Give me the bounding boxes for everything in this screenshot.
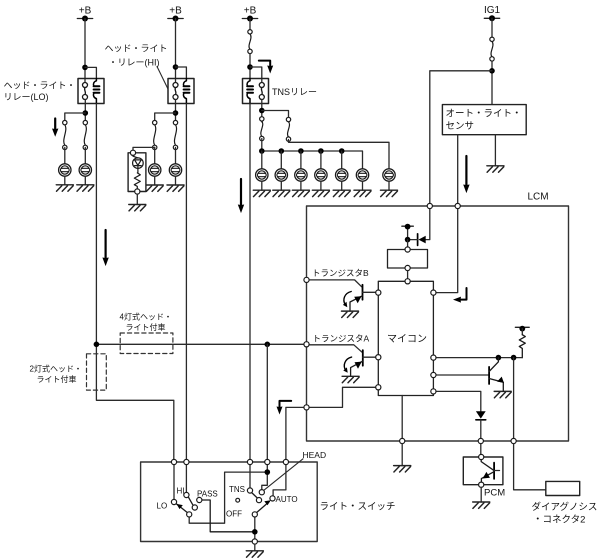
ground NPN emitter bbox=[494, 391, 511, 397]
main lever common-AUTO (with arrow) bbox=[256, 500, 270, 513]
ground HI indicator bbox=[129, 205, 146, 211]
node junction NPN collector bbox=[496, 355, 502, 361]
dimmer lever LO-common (with arrow) bbox=[176, 504, 187, 513]
node junction LO lamps bbox=[83, 110, 89, 116]
fuse LO left bbox=[63, 120, 67, 149]
wire LO terminal to LO contact bbox=[173, 462, 175, 499]
svg-text:4灯式ヘッド・: 4灯式ヘッド・ bbox=[120, 312, 172, 322]
svg-text:オート・ライト・: オート・ライト・ bbox=[446, 109, 522, 120]
node junction IG1 branch bbox=[489, 68, 495, 74]
svg-text:マイコン: マイコン bbox=[387, 334, 427, 345]
wire AUTO terminal to AUTO contact bbox=[273, 462, 286, 496]
svg-text:・コネクタ2: ・コネクタ2 bbox=[533, 515, 585, 526]
fuse TNS 2 bbox=[286, 117, 290, 141]
arrow current direction into TNS relay bbox=[259, 61, 273, 74]
wire branch to HI indicator bbox=[133, 147, 155, 153]
wire IG1 line inside LCM to diode bbox=[426, 206, 430, 240]
dimmer lever HI-aux bbox=[188, 497, 193, 506]
wire switch to ground bbox=[254, 544, 256, 551]
wires TNS lamps to grounds bbox=[262, 181, 389, 190]
svg-text:ライト付車: ライト付車 bbox=[126, 322, 166, 332]
wire HI relay contact output bbox=[175, 100, 177, 123]
wire fuse to right LO lamp bbox=[84, 147, 86, 170]
HI indicator unit (box with LED and resistor) bbox=[128, 153, 146, 192]
svg-text:ヘッド・ライト・: ヘッド・ライト・ bbox=[4, 81, 76, 91]
terminal LO on switch box bbox=[171, 459, 176, 464]
wire HEAD node to HEAD contact bbox=[262, 472, 268, 490]
terminal regulator bottom bbox=[405, 265, 410, 270]
transistor PCM input bbox=[481, 460, 499, 483]
node +B (battery feed 1) bbox=[77, 6, 92, 22]
svg-text:HI: HI bbox=[177, 487, 185, 496]
wire micom to pull-up node bbox=[433, 357, 522, 359]
wire LCM to PCM bbox=[480, 444, 482, 457]
ground LO left lamp bbox=[56, 185, 73, 191]
contact HEAD bbox=[259, 490, 264, 495]
svg-text:ダイアグノシス: ダイアグノシス bbox=[532, 501, 598, 513]
svg-text:+B: +B bbox=[244, 6, 257, 17]
wire lamp to ground bbox=[175, 176, 177, 185]
wire branch to left HI fuse bbox=[155, 113, 176, 123]
svg-text:IG1: IG1 bbox=[484, 5, 501, 16]
relay LO contact bbox=[83, 83, 88, 100]
wire LCM to chassis ground bbox=[401, 444, 403, 466]
arrow current direction TNS coil line bbox=[238, 179, 244, 213]
wire bus drops to lamps bbox=[262, 151, 342, 175]
contact LO bbox=[171, 499, 176, 504]
wire fuse to left HI lamp bbox=[154, 147, 156, 170]
wire LO relay coil line down bbox=[96, 104, 173, 463]
wire lamp to ground bbox=[64, 176, 66, 185]
transistor B (PNP output) bbox=[307, 280, 379, 311]
node junction diode/supply bbox=[405, 237, 411, 243]
svg-text:PASS: PASS bbox=[197, 490, 218, 499]
internal regulator (unlabeled box) bbox=[388, 250, 428, 269]
ground transistor A emitter bbox=[342, 376, 359, 382]
pull-up resistor tap bbox=[515, 326, 529, 335]
contact dimmer aux bbox=[192, 505, 197, 510]
relay TNS (box) bbox=[243, 79, 269, 104]
transistor NPN (diag driver) bbox=[489, 358, 504, 392]
terminals on LCM edges bbox=[427, 203, 432, 208]
node junction +B3 branch bbox=[247, 64, 253, 70]
wire regulator to microcomputer bbox=[407, 271, 409, 282]
ground PCM bbox=[473, 502, 490, 508]
wire TNS lamp bus bbox=[262, 151, 363, 175]
node +B (battery feed 2) bbox=[168, 6, 183, 22]
svg-text:ライト付車: ライト付車 bbox=[37, 374, 77, 384]
svg-text:2灯式ヘッド・: 2灯式ヘッド・ bbox=[30, 364, 82, 374]
contact OFF marker bbox=[236, 498, 240, 502]
wire branch to left LO fuse bbox=[65, 113, 86, 123]
svg-text:トランジスタB: トランジスタB bbox=[312, 268, 369, 278]
main lever TNS-aux bbox=[252, 493, 258, 499]
terminal HI on switch box bbox=[184, 459, 189, 464]
arrow signal direction sensor output bbox=[463, 156, 469, 193]
relay HI coil bbox=[183, 79, 189, 104]
svg-text:PCM: PCM bbox=[484, 488, 505, 499]
wire IG1 branch to LCM bbox=[430, 71, 492, 206]
svg-text:リレー(LO): リレー(LO) bbox=[4, 92, 49, 102]
svg-text:ヘッド・ライト: ヘッド・ライト bbox=[105, 44, 168, 54]
wire +B2 down to HI relay bbox=[175, 19, 177, 83]
svg-text:TNS: TNS bbox=[229, 485, 245, 494]
wire HI relay coil line down bbox=[185, 104, 187, 463]
relay headlight HI (box) bbox=[168, 79, 194, 104]
auto light sensor (box) bbox=[442, 105, 526, 135]
node junction TNS fuses bbox=[259, 108, 265, 114]
wire +B3 to fuse bbox=[249, 19, 251, 32]
dashed box 2-lamp headlight variant bbox=[87, 354, 107, 390]
microcomputer (box) bbox=[378, 281, 433, 395]
contact PASS bbox=[197, 497, 202, 502]
lamp headlight LO left bbox=[59, 164, 71, 176]
wire supply node to regulator box bbox=[407, 240, 409, 250]
node junction on LO coil line bbox=[94, 342, 100, 348]
terminals on micom edges bbox=[376, 290, 381, 295]
internal supply tap bbox=[402, 224, 413, 240]
arrow current direction LO bbox=[52, 119, 58, 137]
wire LCM sense line (horizontal) bbox=[96, 343, 306, 345]
wire lamp to ground bbox=[84, 176, 86, 185]
wire fuse to left LO lamp bbox=[64, 147, 66, 170]
wire LO relay contact output bbox=[84, 100, 86, 123]
wire jog to HI relay coil bbox=[176, 67, 187, 79]
svg-text:ライト・スイッチ: ライト・スイッチ bbox=[320, 502, 396, 513]
wire PASS contact to ground node bbox=[202, 500, 252, 532]
contact HI bbox=[184, 492, 189, 497]
wire jog to TNS relay contact bbox=[250, 67, 262, 83]
wire HEAD terminal down bbox=[266, 462, 268, 472]
ground LCM bbox=[394, 466, 411, 472]
ground LO right lamp bbox=[77, 185, 94, 191]
curved arrow transistor A bbox=[343, 357, 351, 373]
contact AUTO bbox=[270, 496, 275, 501]
node junction HEAD bbox=[265, 469, 271, 475]
fuse IG1 bbox=[490, 37, 494, 61]
svg-text:TNSリレー: TNSリレー bbox=[272, 87, 317, 97]
wire sensor output to LCM bbox=[457, 135, 459, 206]
dashed box 4-lamp headlight variant bbox=[120, 333, 173, 354]
wire TNS relay coil line down bbox=[249, 104, 251, 463]
wire TNS relay contact output bbox=[261, 100, 263, 123]
lamp headlight HI left bbox=[149, 164, 161, 176]
arrow current direction LO coil line bbox=[102, 230, 108, 266]
terminal regulator top bbox=[405, 247, 410, 252]
PCM (box) bbox=[463, 457, 503, 485]
svg-text:OFF: OFF bbox=[226, 510, 242, 519]
relay headlight LO (box) bbox=[78, 79, 104, 104]
resistor HI indicator bbox=[134, 173, 140, 189]
terminal PCM bottom bbox=[479, 482, 484, 487]
fuse HI right bbox=[173, 120, 177, 149]
wire terminal to LED bbox=[133, 155, 138, 158]
resistor R (pull-up) bbox=[519, 335, 525, 358]
node IG1 (ignition feed) bbox=[484, 5, 501, 21]
grounds TNS lamps bbox=[253, 190, 397, 196]
node junction HEAD feed branch bbox=[265, 342, 271, 348]
arrow signal direction AUTO line bbox=[277, 401, 292, 415]
LCM control module (box) bbox=[307, 206, 569, 441]
terminal PCM top bbox=[479, 454, 484, 459]
wire main switch common to ground bbox=[254, 517, 256, 542]
wire lamp to ground bbox=[154, 176, 156, 185]
ground HI left lamp bbox=[146, 185, 163, 191]
svg-text:LO: LO bbox=[157, 502, 168, 511]
relay TNS coil (mirrored, on left) bbox=[247, 79, 253, 104]
ground HI right lamp bbox=[167, 185, 184, 191]
light switch (box) bbox=[141, 462, 318, 542]
wire branch to TNS fuse 2 bbox=[262, 111, 289, 120]
wire fuse1 to lamp bus bbox=[261, 139, 263, 152]
fuse TNS 1 bbox=[260, 117, 264, 141]
terminal indicator bottom bbox=[135, 189, 140, 194]
transistor A (PNP output) bbox=[307, 345, 379, 377]
svg-text:AUTO: AUTO bbox=[276, 495, 298, 504]
terminal HEAD on switch box bbox=[265, 459, 270, 464]
wire micom to sensor line bbox=[433, 206, 457, 293]
curved arrow transistor B bbox=[343, 292, 351, 308]
svg-text:・リレー(HI): ・リレー(HI) bbox=[109, 58, 160, 68]
wire TNS terminal to TNS contact bbox=[249, 462, 251, 488]
node junction +B1/coil branch bbox=[82, 65, 88, 71]
svg-text:LCM: LCM bbox=[528, 192, 549, 203]
wire IG1 to fuse bbox=[491, 18, 493, 39]
wire micom to diode D2 bbox=[433, 391, 480, 411]
node junction HI lamps bbox=[173, 110, 179, 116]
terminal AUTO on switch box bbox=[283, 459, 288, 464]
node junction switch ground bbox=[252, 529, 258, 535]
wire indicator to ground bbox=[136, 194, 138, 204]
wire LCM terminal to switch AUTO bbox=[286, 407, 307, 462]
contact main aux bbox=[256, 498, 261, 503]
wire dimmer common to HEAD node bbox=[189, 472, 265, 523]
wire HI terminal to HI contact bbox=[185, 462, 187, 492]
wire HEAD feed down to switch bbox=[266, 344, 268, 462]
wire diag output line bbox=[513, 358, 515, 441]
wire PCM to ground bbox=[480, 487, 482, 502]
contact main common bbox=[252, 512, 257, 517]
svg-text:トランジスタA: トランジスタA bbox=[313, 334, 370, 344]
contact TNS bbox=[247, 488, 252, 493]
lamp headlight HI right bbox=[169, 164, 181, 176]
relay TNS contact (on right) bbox=[259, 83, 264, 100]
wire fuse to TNS relay bbox=[249, 54, 251, 79]
terminal indicator top bbox=[130, 150, 135, 155]
svg-text:+B: +B bbox=[79, 6, 92, 17]
svg-text:センサ: センサ bbox=[446, 121, 475, 132]
node bus junctions and lamp feeds bbox=[259, 148, 345, 154]
relay LO coil bbox=[93, 79, 99, 104]
svg-text:HEAD: HEAD bbox=[303, 450, 327, 460]
fuse main fusible link (TNS feed) bbox=[248, 30, 252, 54]
node junction diag line bbox=[511, 355, 517, 361]
ground light switch bbox=[246, 551, 263, 557]
ground transistor B emitter bbox=[342, 311, 359, 317]
diagnosis connector 2 (box) bbox=[546, 481, 580, 495]
fuse LO right bbox=[83, 120, 87, 149]
contact dimmer common bbox=[187, 512, 192, 517]
leader line HI label to relay bbox=[157, 67, 168, 90]
fuse HI left bbox=[153, 120, 157, 149]
LED HI indicator bbox=[133, 158, 144, 173]
lamp headlight LO right bbox=[79, 164, 91, 176]
wire LCM to diagnosis connector bbox=[514, 444, 546, 490]
node +B (battery feed 3) bbox=[242, 6, 257, 22]
wire fuse to sensor bbox=[491, 61, 493, 105]
wire fuse2 to 7th lamp bbox=[289, 140, 390, 176]
wire micom to NPN base bbox=[433, 374, 488, 376]
wire jog to LO relay coil bbox=[85, 67, 96, 78]
diode D2 (to PCM) bbox=[476, 411, 486, 441]
lamps TNS (7 small lamps) bbox=[256, 169, 396, 181]
wire sensor to ground bbox=[494, 135, 496, 166]
ground auto light sensor bbox=[487, 166, 504, 172]
arrow signal direction into micom bbox=[453, 288, 467, 303]
wire fuse to right HI lamp bbox=[175, 147, 177, 170]
node junction +B2/coil branch bbox=[173, 64, 179, 70]
svg-text:+B: +B bbox=[169, 6, 182, 17]
relay HI contact bbox=[173, 83, 178, 100]
terminal TNS on switch box bbox=[247, 459, 252, 464]
terminal microcomputer top bbox=[405, 279, 410, 284]
wire +B1 down to LO relay bbox=[84, 19, 86, 83]
wire micom bottom to ground line bbox=[401, 396, 403, 442]
diode D1 (feeds internal supply) bbox=[408, 234, 426, 246]
wire micom lower-left to LCM edge bbox=[307, 387, 379, 407]
terminal switch bottom bbox=[252, 539, 257, 544]
